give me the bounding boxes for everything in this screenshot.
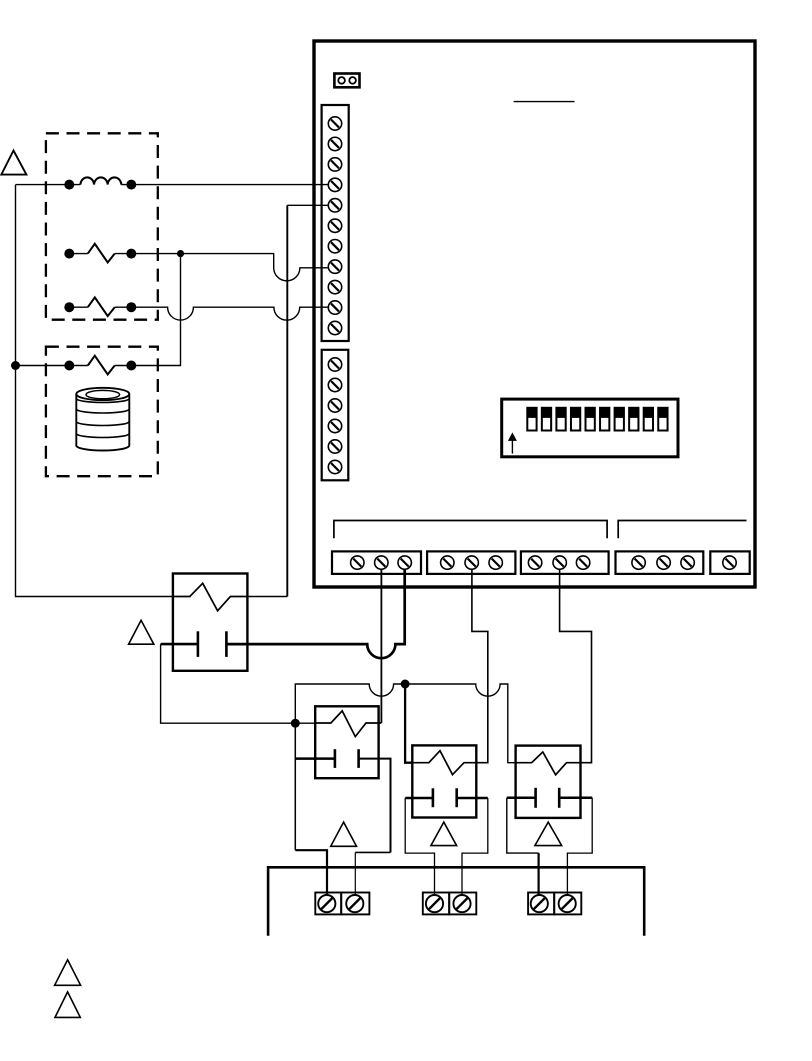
terminal block TB7 bbox=[710, 551, 749, 574]
resistor R3 row bbox=[16, 365, 88, 367]
junction node bbox=[177, 250, 184, 257]
junction node bbox=[11, 361, 20, 370]
wire: TB1 screw 5 down to thermostat T1 resistor bbox=[287, 204, 335, 206]
bracket over aux terminal blocks bbox=[618, 521, 746, 539]
terminal dot bbox=[126, 361, 136, 371]
thermostat T4 resistor bbox=[516, 752, 581, 775]
terminal block TB5 (zone3) bbox=[521, 551, 609, 574]
note triangle (3) bbox=[331, 822, 357, 846]
bracket over zone terminal blocks bbox=[334, 521, 607, 539]
thermostat T4 box bbox=[516, 746, 581, 818]
thermostat T2 box bbox=[315, 706, 378, 778]
wire: T4 cap left to bottom pair3 left bbox=[507, 796, 536, 799]
terminal dot bbox=[126, 249, 136, 259]
note triangle (5) bbox=[535, 822, 562, 846]
thermostat T3 resistor bbox=[412, 751, 476, 775]
wire: T4 cap right to bottom pair3 right bbox=[559, 796, 592, 799]
terminal block TB4 (zone2) bbox=[427, 551, 515, 574]
legend note triangle A bbox=[55, 960, 81, 986]
thermostat T1 box bbox=[173, 574, 248, 671]
terminal dot bbox=[64, 361, 74, 371]
terminal dot bbox=[126, 180, 136, 190]
thermostat T1 heat anticipator resistor bbox=[173, 583, 248, 611]
terminal strip TB1 bbox=[322, 105, 349, 341]
dashed enclosure (outdoor thermostat group) bbox=[46, 133, 158, 319]
wire bbox=[121, 184, 335, 186]
wire: T3 cap right to bottom pair2 right bbox=[457, 797, 488, 800]
terminal dot bbox=[64, 249, 74, 259]
terminal pair 1 bbox=[315, 893, 369, 915]
wire: box1 screw2 down to thermostat T2 resistor bbox=[380, 563, 382, 723]
jumper JP1 bbox=[334, 74, 359, 88]
inductor L1 bbox=[80, 177, 121, 184]
note triangle (1) bbox=[1, 151, 26, 175]
label underline bbox=[514, 101, 575, 103]
wire W: zone R rail bbox=[295, 684, 515, 763]
wire: inductor row to TB1 screw 4 bbox=[16, 184, 81, 186]
thermostat T1 capacitor plates bbox=[197, 631, 200, 657]
wire: box3 screw2 down to thermostat T4 resistor bbox=[560, 563, 592, 763]
terminal dot bbox=[64, 302, 74, 312]
note triangle (4) bbox=[431, 822, 457, 846]
resistor R2 row bbox=[69, 306, 88, 308]
dashed enclosure (sensor with stack) bbox=[46, 347, 158, 477]
thermostat T3 capacitor plates bbox=[432, 788, 435, 807]
DIP switch S1 bbox=[502, 399, 678, 457]
terminal block TB6 bbox=[616, 551, 704, 574]
wire: T2 cap left lead bbox=[295, 757, 335, 760]
bottom equipment enclosure bbox=[268, 867, 644, 936]
legend note triangle B bbox=[55, 992, 80, 1018]
left rail wire bbox=[16, 185, 173, 597]
terminal dot bbox=[126, 302, 136, 312]
wire: T2 cap right to bottom pair1 right bbox=[359, 759, 391, 853]
panel U1 outline bbox=[314, 41, 755, 587]
thermostat T4 capacitor plates bbox=[534, 788, 537, 808]
terminal pair 3 bbox=[528, 893, 581, 915]
thermostat T3 box bbox=[412, 745, 476, 817]
terminal pair 2 bbox=[423, 893, 477, 915]
junction node bbox=[291, 719, 300, 728]
note triangle (2) bbox=[129, 620, 154, 644]
wire: box2 screw2 down to thermostat T3 resistor bbox=[472, 563, 488, 763]
terminal strip TB2 bbox=[322, 350, 349, 481]
resistor R1 row bbox=[69, 253, 88, 255]
terminal block TB3 (zone1) bbox=[332, 551, 421, 574]
wire: W down to thermostat T3 resistor bbox=[405, 684, 412, 763]
terminal dot bbox=[64, 180, 74, 190]
wire: T2 cap left to bottom pair1 left bbox=[294, 723, 296, 850]
thermostat T2 resistor bbox=[315, 711, 381, 737]
stacked coil / sensor stack bbox=[76, 388, 129, 451]
wire: T1 cap right lead up to box1 screw3 bbox=[226, 563, 404, 659]
DIP arrow bbox=[508, 432, 517, 441]
junction node bbox=[401, 680, 410, 689]
wire: T3 cap left to bottom pair2 left bbox=[405, 797, 433, 800]
thermostat T2 capacitor plates bbox=[334, 749, 337, 768]
wire: T1 cap left lead down to zone rail bbox=[161, 643, 198, 646]
